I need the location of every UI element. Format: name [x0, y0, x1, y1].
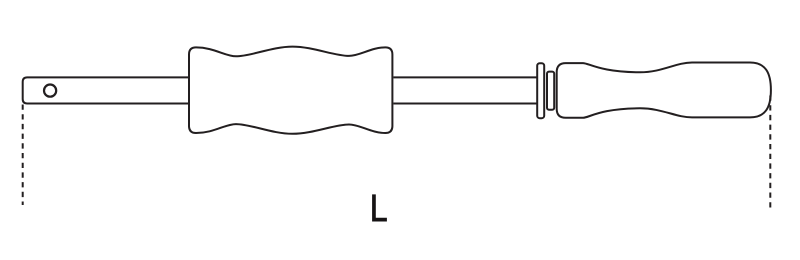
hole	[44, 85, 56, 97]
extension line right (dashed)	[769, 96, 771, 210]
shaft left segment	[23, 77, 189, 103]
grip block	[189, 47, 392, 134]
dimension label L	[372, 194, 387, 221]
shaft right segment	[393, 77, 538, 103]
handle	[557, 63, 771, 118]
washer	[537, 63, 544, 118]
ferrule	[547, 72, 554, 110]
extension line left (dashed)	[22, 105, 24, 206]
